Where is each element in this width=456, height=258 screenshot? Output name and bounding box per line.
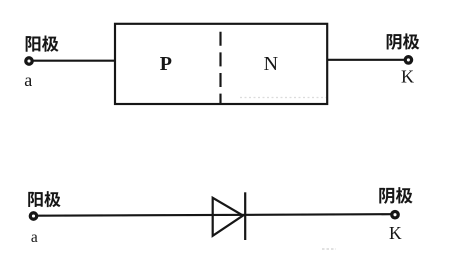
wire box to cathode — [327, 59, 404, 61]
label cathode text 阴极 (bottom) — [379, 187, 412, 204]
svg-text:P: P — [160, 53, 172, 75]
box PN junction body — [115, 24, 327, 104]
svg-text:N: N — [264, 53, 278, 75]
scan artifact: faint dotted line inside box — [240, 97, 326, 99]
label cathode text 阴极 (top) — [387, 33, 420, 49]
terminal K (top cathode circle) — [405, 57, 411, 63]
diode cathode bar — [244, 192, 246, 240]
svg-text:K: K — [401, 67, 414, 87]
diode D triangle — [213, 198, 243, 236]
svg-text:K: K — [389, 223, 402, 243]
terminal K (bottom cathode circle) — [392, 212, 398, 218]
label anode text 阳极 (top) — [26, 35, 59, 51]
svg-text:a: a — [31, 229, 38, 246]
svg-text:a: a — [24, 70, 32, 90]
terminal a (bottom anode circle) — [30, 213, 36, 219]
terminal a (top anode circle) — [26, 58, 32, 64]
label anode text 阳极 (bottom) — [28, 191, 60, 207]
dashed junction line — [219, 32, 221, 104]
scan artifact: faint smudge bottom center — [322, 248, 336, 250]
wire anode to cathode (through diode) — [38, 214, 391, 216]
wire anode to box — [34, 60, 117, 62]
